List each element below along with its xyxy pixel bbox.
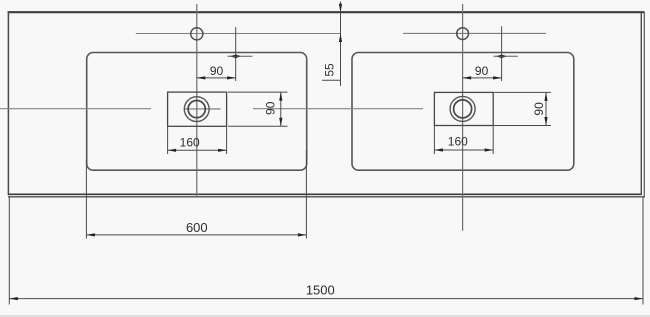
dim 90 top-right right arrow xyxy=(493,76,502,79)
countertop bottom edge lower line xyxy=(8,196,645,198)
dim 90 top-left left arrow xyxy=(197,76,206,79)
dim 160 right line xyxy=(434,149,493,151)
dim 90 top-right line xyxy=(463,77,502,79)
dim 90 vertical left top arrow xyxy=(279,92,282,101)
scan artifact band at image bottom xyxy=(0,315,650,317)
dim 160 right extension line left xyxy=(433,126,435,154)
dim 600 extension line right xyxy=(305,150,307,239)
dim 160 left line xyxy=(168,149,227,151)
right bowtie leader line xyxy=(494,55,518,57)
left bowtie marker xyxy=(230,55,242,58)
dim 55 text shoulder line xyxy=(322,79,341,81)
left vertical centerline (through faucet and drain) xyxy=(196,4,198,197)
dim 55 vertical line xyxy=(340,2,342,87)
left drain rectangle xyxy=(168,92,227,126)
dim 90 vertical right lower extension line xyxy=(494,125,551,127)
dim 600 right arrow xyxy=(298,233,307,236)
dim 160 right left arrow xyxy=(434,148,443,151)
right vertical centerline (through faucet and drain) xyxy=(462,4,464,231)
dim 600 line xyxy=(86,234,306,236)
dim 1500 right arrow xyxy=(635,297,644,300)
left bowtie marker vertical extension line xyxy=(235,27,237,81)
left bowtie leader line xyxy=(228,55,253,57)
dim 90 top-left line xyxy=(197,77,236,79)
countertop right edge outer line xyxy=(643,12,645,197)
dim 160 left extension line right xyxy=(226,127,228,154)
right bowtie marker vertical extension line xyxy=(501,26,503,81)
dim 90 top-left right arrow xyxy=(227,76,236,79)
svg-text:90: 90 xyxy=(475,64,489,78)
dim 90 vertical left upper extension line xyxy=(228,91,288,93)
right basin outline xyxy=(352,53,574,171)
svg-text:90: 90 xyxy=(532,102,546,116)
dim 160 right extension line right xyxy=(492,126,494,154)
dim 600 left arrow xyxy=(86,233,95,236)
dim 160 left right arrow xyxy=(218,149,227,152)
horizontal drain centerline segment C (x=253 to x=423) xyxy=(253,108,423,110)
countertop right edge inner line xyxy=(640,12,642,195)
right drain inner circle xyxy=(454,100,472,118)
countertop left edge xyxy=(7,11,9,195)
dim 1500 line xyxy=(9,298,643,300)
dim 160 right right arrow xyxy=(485,148,494,151)
dim 1500 extension line right xyxy=(642,198,644,305)
left faucet hole xyxy=(191,28,203,40)
horizontal drain centerline segment A (image left to x=151) xyxy=(0,108,151,110)
svg-text:160: 160 xyxy=(448,134,468,148)
left basin outline xyxy=(87,53,307,171)
horizontal drain centerline segment B (through left drain circle) xyxy=(184,108,221,110)
dim 1500 extension line left xyxy=(8,198,10,305)
svg-text:90: 90 xyxy=(210,64,224,78)
dim 90 vertical right upper extension line xyxy=(494,91,551,93)
dim 90 vertical right line xyxy=(545,92,547,125)
svg-text:600: 600 xyxy=(186,220,208,235)
left drain inner circle xyxy=(188,101,205,118)
dim 90 vertical right top arrow xyxy=(544,92,547,101)
dim 600 extension line left xyxy=(85,160,87,239)
dim 160 left left arrow xyxy=(168,149,177,152)
svg-text:55: 55 xyxy=(323,63,337,77)
dim 90 vertical left bottom arrow xyxy=(279,118,282,127)
dim 55 top arrow (points down at counter edge) xyxy=(339,4,342,13)
dim 90 vertical left lower extension line xyxy=(228,125,288,127)
svg-text:90: 90 xyxy=(263,101,277,115)
countertop top edge xyxy=(8,11,645,13)
svg-text:160: 160 xyxy=(180,136,200,150)
left drain outer circle xyxy=(184,97,209,122)
right drain rectangle xyxy=(434,92,493,125)
svg-text:1500: 1500 xyxy=(306,282,335,297)
right bowtie marker xyxy=(495,55,507,58)
dim 160 left extension line left xyxy=(167,127,169,154)
right faucet hole xyxy=(457,28,469,40)
right faucet horizontal centerline tick xyxy=(403,32,546,34)
dim 55 bottom arrow (points up at faucet centerline) xyxy=(339,34,342,43)
left faucet horizontal centerline tick xyxy=(136,33,341,35)
right drain outer circle xyxy=(450,96,475,121)
dim 90 vertical right bottom arrow xyxy=(544,117,547,126)
dim 1500 left arrow xyxy=(9,297,17,300)
dim 90 vertical left line xyxy=(280,92,282,126)
dim 90 top-right left arrow xyxy=(463,76,472,79)
countertop bottom edge upper line xyxy=(8,193,642,195)
